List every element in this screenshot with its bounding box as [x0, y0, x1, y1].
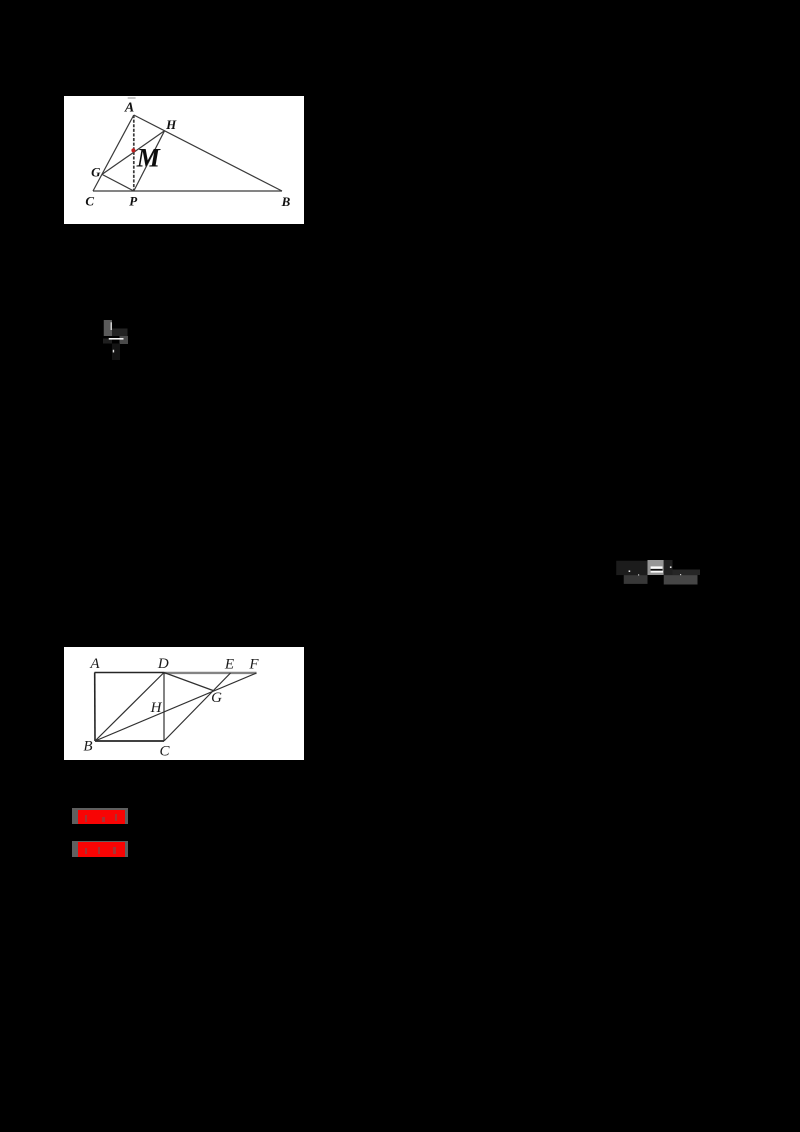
svg-text:E: E: [224, 656, 234, 672]
node M red dot: [131, 148, 135, 152]
svg-text:H: H: [150, 700, 163, 716]
wire P-H: [134, 131, 165, 191]
wire B-F through H and G: [95, 673, 257, 741]
stray gray dash above A: [128, 97, 136, 98]
wire C-E through G: [164, 673, 231, 741]
svg-text:G: G: [91, 164, 101, 179]
wire A-B: [134, 115, 282, 191]
svg-text:A: A: [124, 101, 134, 116]
svg-text:B: B: [83, 738, 92, 754]
wire A-P dashed: [133, 115, 135, 191]
fraction mark 1/4: [103, 319, 129, 361]
red tag 1: [72, 808, 127, 824]
wire B-D diagonal: [95, 673, 164, 742]
wire A-C: [93, 115, 134, 191]
wire A-B: [94, 673, 96, 742]
equation mark S=S: [616, 559, 700, 586]
wire D-G: [164, 673, 213, 691]
wire A-D: [95, 672, 165, 674]
wire D-C: [163, 673, 165, 742]
red tag 2: [72, 841, 127, 857]
svg-text:C: C: [159, 744, 170, 760]
wire G-H: [102, 131, 165, 175]
svg-text:C: C: [85, 193, 94, 208]
wire C-B (triangle base): [93, 190, 282, 192]
svg-text:H: H: [165, 117, 177, 132]
svg-text:P: P: [129, 193, 138, 208]
wire D-F top gray line: [164, 672, 257, 674]
panel 1: triangle figure: [64, 96, 304, 224]
svg-text:G: G: [211, 690, 222, 706]
svg-text:M: M: [136, 144, 161, 173]
svg-text:A: A: [89, 656, 100, 672]
svg-text:B: B: [281, 194, 291, 209]
wire B-C: [95, 740, 164, 742]
panel 2: square figure: [64, 647, 304, 760]
svg-text:F: F: [248, 657, 259, 673]
wire G-P: [102, 174, 134, 191]
svg-text:D: D: [157, 656, 169, 672]
